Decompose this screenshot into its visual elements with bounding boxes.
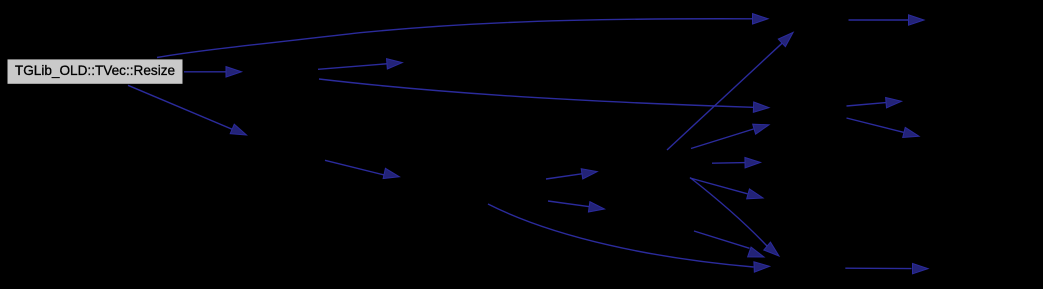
edge E1->N7 lower (rising fan line) xyxy=(691,120,770,149)
edge M0->N6 (long top curve) xyxy=(157,14,768,58)
edge N6->R0 (top right horizontal) xyxy=(849,15,925,25)
edge E1->N8 (horizontal fan line) xyxy=(712,157,761,168)
edge N9->R3 (bottom right horizontal) xyxy=(845,263,928,273)
edge N2->D xyxy=(325,160,401,182)
edge N7->R1 xyxy=(847,96,902,108)
edge M0->N2 (diagonal down-right) xyxy=(128,85,249,139)
edge E1->N9 (curved fan line down) xyxy=(690,178,782,260)
edge N1->N7 (long shallow curve) xyxy=(319,79,769,113)
edge E2->N9 (straight line) xyxy=(694,231,766,262)
edge D->N9 (long bottom curve) xyxy=(488,204,770,272)
edge N1->N3 xyxy=(318,57,403,69)
edge N7->R2 xyxy=(847,118,921,141)
edge E1->N8x (descending fan line) xyxy=(690,178,764,203)
edge D->E2 xyxy=(548,201,605,214)
svg-text:TGLib_OLD::TVec::Resize: TGLib_OLD::TVec::Resize xyxy=(15,63,175,78)
node M0: TGLib_OLD::TVec::Resize (gray box) xyxy=(8,59,183,83)
edge E2->N6 (steep diagonal) xyxy=(667,28,797,150)
edge M0->N1 (horizontal from Resize box) xyxy=(184,67,242,77)
edge D->E1 xyxy=(546,166,598,179)
